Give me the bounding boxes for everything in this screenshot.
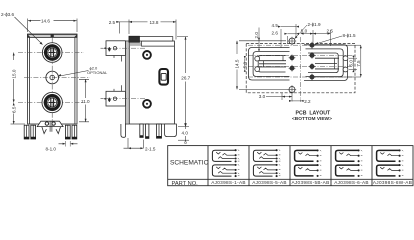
bushing hole top (Φ1.9) <box>288 37 296 45</box>
dim 2.6 (pcb top) <box>284 33 299 44</box>
side view pins <box>121 124 162 138</box>
side view body <box>125 41 174 124</box>
front view center mount <box>37 121 63 133</box>
dim 11.0 (front right) <box>79 79 89 122</box>
svg-text:8-ɸ1.5: 8-ɸ1.5 <box>343 33 356 38</box>
dim 14.6 (front top) <box>28 19 78 33</box>
jack hole top (2-Φ3.6) <box>42 43 62 63</box>
dim 26.7 (side right) <box>177 37 189 127</box>
pads left column <box>255 56 260 71</box>
schematic cell 3 <box>295 149 322 177</box>
schematic cell 1 <box>212 149 239 177</box>
svg-text:13.8: 13.8 <box>150 20 159 25</box>
svg-text:<BOTTOM VIEW>: <BOTTOM VIEW> <box>292 116 332 122</box>
svg-text:2.2: 2.2 <box>304 99 311 104</box>
right footprint outline <box>304 45 348 81</box>
contact holes center-right <box>309 42 316 81</box>
svg-text:PCB LAYOUT: PCB LAYOUT <box>296 111 332 117</box>
svg-text:26.7: 26.7 <box>181 76 190 81</box>
svg-text:3.0: 3.0 <box>259 94 266 99</box>
svg-text:2.5: 2.5 <box>109 20 116 25</box>
bushing lower centerline <box>104 98 146 100</box>
svg-text:2.0: 2.0 <box>254 32 259 39</box>
bushing hole bottom (Φ1.9) <box>288 85 296 93</box>
dim 2-1.5 (side bottom) <box>124 138 144 149</box>
svg-text:5.0: 5.0 <box>242 61 247 68</box>
dim 5.0 (pcb top-right) <box>301 30 331 46</box>
svg-text:2.6: 2.6 <box>272 30 279 35</box>
dim 7.5 (pcb right outer, vertical) <box>314 45 362 77</box>
dim 3.0 (pcb bottom) <box>266 93 292 102</box>
svg-text:AJ0398S-6W-AB: AJ0398S-6W-AB <box>373 180 412 185</box>
bushing lower <box>101 85 126 106</box>
board outline (dashed) <box>246 44 355 93</box>
svg-text:AJ0398S-1-AB: AJ0398S-1-AB <box>211 180 246 185</box>
svg-text:PART NO.: PART NO. <box>172 181 199 187</box>
table grid <box>168 146 413 186</box>
svg-text:15.0: 15.0 <box>11 69 16 78</box>
contact holes center-left <box>289 54 296 71</box>
svg-text:14.6: 14.6 <box>41 18 50 23</box>
svg-text:4.5: 4.5 <box>272 23 279 28</box>
svg-text:2-1.5: 2-1.5 <box>145 146 156 151</box>
svg-text:6.5: 6.5 <box>11 106 16 113</box>
svg-text:2-ɸ1.9: 2-ɸ1.9 <box>308 22 321 27</box>
dim 2.0 (pcb top-left, vertical) <box>258 28 260 51</box>
dim 14.5 (pcb left, vertical) <box>236 41 288 90</box>
dim 2.2 (pcb bottom) <box>289 100 304 102</box>
part numbers <box>211 180 412 185</box>
dim 2.5 (pcb top-right) <box>313 33 331 35</box>
dim 2.5 / 13.8 (side top) <box>116 20 176 40</box>
svg-text:14.5: 14.5 <box>235 59 240 68</box>
row centerlines <box>248 45 353 77</box>
dim 5.0 (pcb left inner, vertical) <box>244 56 246 72</box>
pads right column <box>343 56 348 72</box>
svg-text:2.5: 2.5 <box>327 28 334 33</box>
dim 15.0 / 6.5 (front left) <box>11 53 26 125</box>
svg-text:7.5: 7.5 <box>356 60 361 67</box>
bushing upper <box>101 41 126 62</box>
svg-text:2-ɸ3.6: 2-ɸ3.6 <box>1 12 14 17</box>
svg-text:4.0: 4.0 <box>182 131 189 136</box>
dim 4.5 (pcb top) <box>278 24 299 48</box>
rivet upper <box>143 51 151 59</box>
svg-text:AJ0398S-5B-AB: AJ0398S-5B-AB <box>291 180 329 185</box>
jack hole middle (Φ2.0 optional) <box>46 71 59 84</box>
rivet lower <box>143 100 151 108</box>
front view pins <box>24 125 77 139</box>
svg-text:11.0: 11.0 <box>81 99 90 104</box>
center hole feature <box>159 69 168 85</box>
svg-text:8-1.0: 8-1.0 <box>46 147 57 152</box>
left footprint outline <box>249 48 290 81</box>
svg-text:SCHEMATIC: SCHEMATIC <box>170 160 209 167</box>
svg-text:AJ0398S-6-AB: AJ0398S-6-AB <box>334 180 369 185</box>
dim 4.0 (side pins) <box>178 123 189 143</box>
dim 5.0 (pcb right inner, vertical) <box>349 56 357 72</box>
svg-text:OPTIONAL: OPTIONAL <box>87 70 108 75</box>
side view top lid <box>129 36 173 42</box>
side support block <box>165 124 177 137</box>
schematic cell 2 <box>253 149 280 177</box>
center vertical axis <box>300 37 302 100</box>
front view body <box>28 34 78 124</box>
schematic cell 5 <box>377 149 404 177</box>
svg-text:AJ0398S-5-AB: AJ0398S-5-AB <box>252 180 287 185</box>
jack hole bottom <box>42 92 62 112</box>
bushing upper centerline <box>104 47 146 49</box>
svg-text:5.0: 5.0 <box>349 60 354 67</box>
schematic cell 4 <box>336 149 363 177</box>
front view centerlines <box>18 38 90 122</box>
